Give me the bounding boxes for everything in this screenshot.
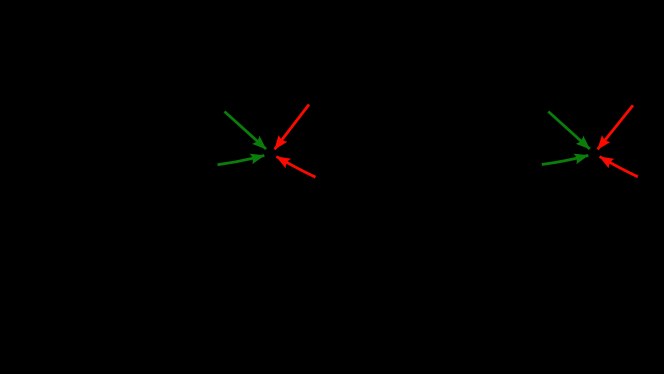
- green attack arrow G1 (left cluster, upper-left diagonal): [225, 112, 267, 150]
- green attack arrow G2 (left cluster, lower-left horizontal): [218, 156, 265, 165]
- red attack arrow R3 (right cluster, upper-right diagonal): [598, 105, 633, 149]
- green attack arrow G4 (right cluster, lower-left horizontal): [542, 155, 589, 164]
- green attack arrow G3 (right cluster, upper-left diagonal): [548, 112, 590, 150]
- red attack arrow R4 (right cluster, lower-right diagonal): [600, 157, 638, 177]
- red attack arrow R1 (left cluster, upper-right diagonal): [275, 105, 309, 150]
- red attack arrow R2 (left cluster, lower-right diagonal): [276, 157, 315, 178]
